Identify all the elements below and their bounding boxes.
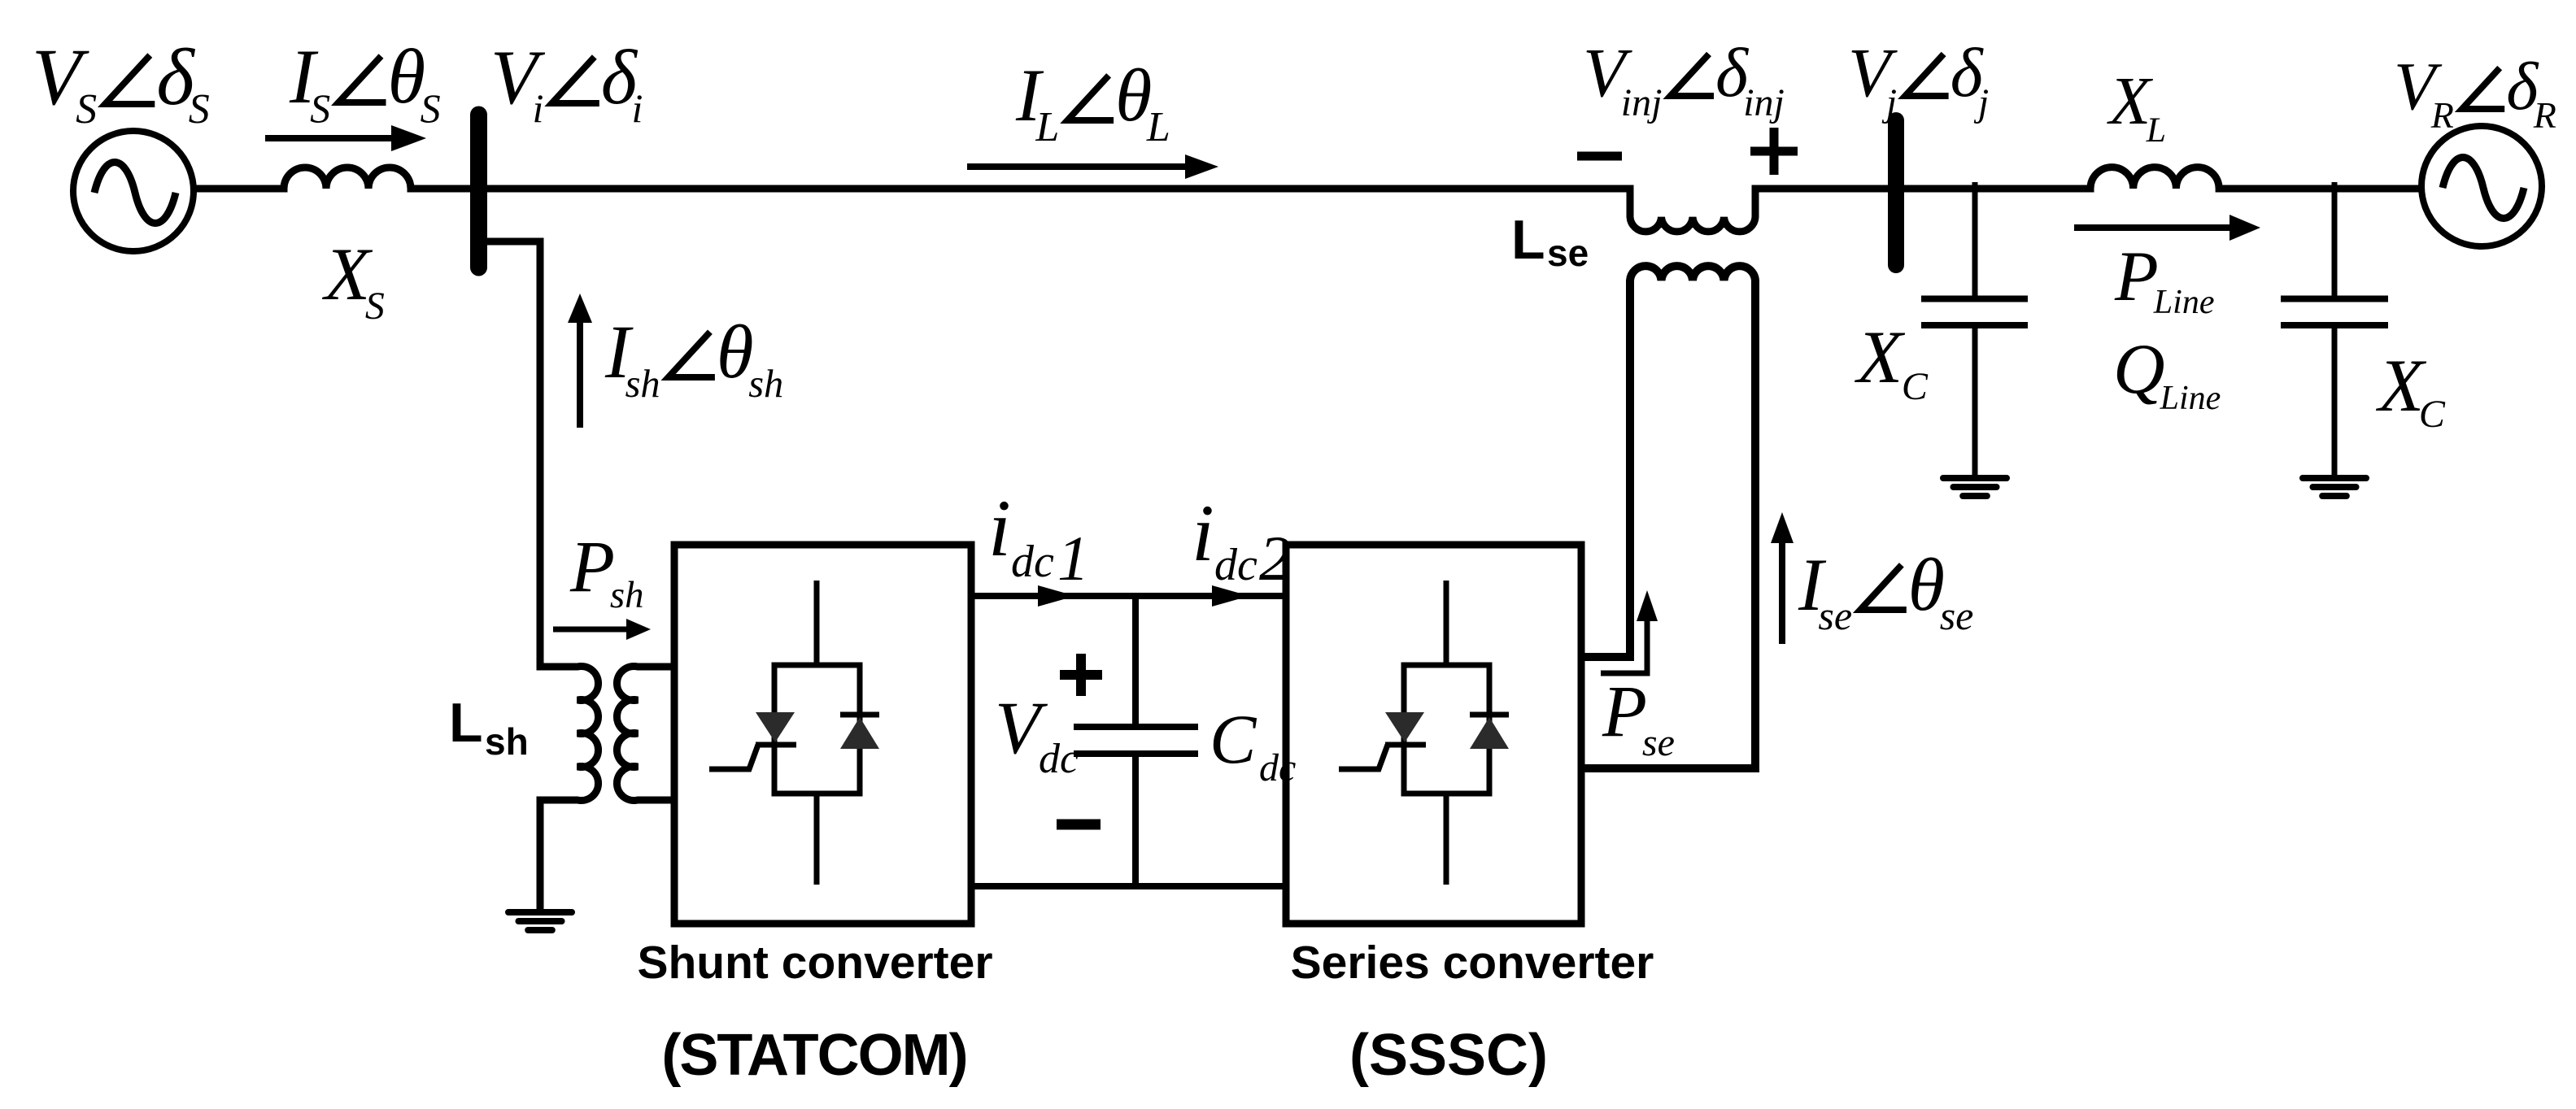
svg-text:X: X [1854,315,1906,398]
svg-text:L: L [1146,104,1170,150]
svg-text:Q: Q [2113,330,2165,409]
svg-text:S: S [310,85,330,131]
svg-text:Line: Line [2160,380,2221,417]
svg-text:2: 2 [1259,523,1291,594]
svg-text:i: i [533,85,544,131]
svg-text:dc: dc [1214,540,1257,590]
svg-text:(SSSC): (SSSC) [1349,1023,1548,1088]
svg-text:L: L [1511,209,1545,271]
svg-text:sh: sh [625,363,660,406]
svg-text:dc: dc [1011,537,1054,587]
svg-text:L: L [449,692,483,754]
svg-text:1: 1 [1057,523,1089,594]
svg-text:i: i [988,483,1011,573]
svg-text:Series converter: Series converter [1291,937,1654,989]
svg-text:L: L [1035,104,1059,150]
svg-text:C: C [1210,700,1257,778]
svg-text:inj: inj [1743,81,1785,124]
svg-text:se: se [1547,232,1589,274]
svg-text:P: P [2114,237,2159,316]
svg-text:Line: Line [2153,284,2215,321]
svg-text:R: R [2430,94,2454,136]
svg-text:C: C [1902,365,1929,408]
svg-text:S: S [76,86,97,133]
svg-text:dc: dc [1259,746,1296,789]
svg-text:i: i [632,85,643,131]
svg-text:sh: sh [610,574,644,616]
svg-text:se: se [1642,721,1675,764]
svg-text:R: R [2533,94,2556,136]
svg-text:S: S [421,85,441,131]
svg-text:S: S [365,285,385,328]
svg-text:S: S [189,86,210,133]
svg-text:L: L [2146,111,2166,150]
svg-text:sh: sh [748,363,783,406]
svg-text:Shunt converter: Shunt converter [637,937,992,989]
svg-text:i: i [1192,488,1214,578]
svg-text:dc: dc [1039,736,1079,782]
svg-text:(STATCOM): (STATCOM) [661,1023,966,1088]
svg-text:inj: inj [1621,81,1663,124]
svg-text:C: C [2419,393,2446,436]
svg-text:se: se [1818,593,1852,638]
svg-text:sh: sh [485,720,529,763]
svg-text:P: P [569,527,615,607]
svg-text:P: P [1602,672,1647,752]
svg-text:se: se [1940,593,1974,638]
